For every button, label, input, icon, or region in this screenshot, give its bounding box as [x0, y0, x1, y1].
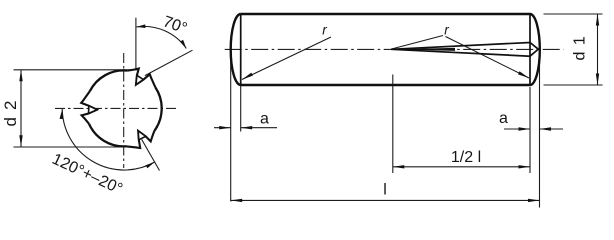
svg-text:d2: d2 — [1, 94, 20, 127]
svg-text:1/2 l: 1/2 l — [451, 149, 481, 166]
svg-text:r: r — [322, 23, 327, 38]
svg-text:l: l — [383, 182, 387, 199]
svg-text:a: a — [260, 111, 269, 128]
svg-text:r: r — [444, 23, 449, 38]
svg-text:d1: d1 — [572, 30, 589, 61]
svg-text:a: a — [499, 110, 508, 127]
